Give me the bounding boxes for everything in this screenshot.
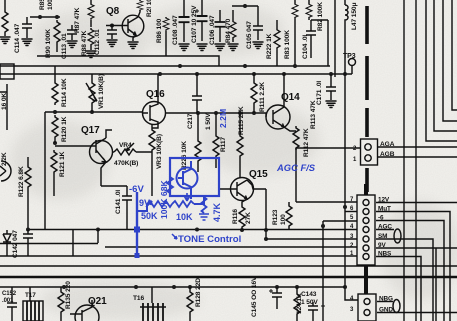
blue resistor in box bbox=[167, 176, 173, 194]
transistor Q14 bbox=[266, 74, 296, 131]
svg-text:100K 68K: 100K 68K bbox=[159, 180, 169, 219]
svg-text:C114 .047: C114 .047 bbox=[14, 23, 21, 53]
blue box bbox=[170, 158, 219, 196]
wire -6 row right bbox=[376, 221, 444, 321]
resistor R114 bbox=[52, 66, 58, 105]
svg-text:R122 6.8K: R122 6.8K bbox=[18, 166, 25, 197]
svg-text:R128 22D: R128 22D bbox=[195, 278, 202, 307]
pot VR3 bbox=[149, 124, 155, 196]
svg-text:27K: 27K bbox=[245, 212, 252, 224]
pot VR1 bbox=[86, 74, 97, 112]
node rail junctions bbox=[158, 64, 347, 76]
capacitor C105 bbox=[253, 6, 263, 40]
wire main vertical x345 bbox=[345, 66, 358, 300]
connector J1 AGA/AGB bbox=[361, 139, 378, 165]
wire top rail B bbox=[0, 73, 352, 75]
svg-text:AGB: AGB bbox=[380, 151, 395, 158]
wire MuT stub left bbox=[345, 211, 357, 213]
svg-text:Q17: Q17 bbox=[81, 125, 100, 136]
transformer T16 bbox=[140, 287, 166, 321]
wire mid gate rail bbox=[45, 111, 143, 113]
wire MuT row right bbox=[376, 212, 450, 321]
resistor R111 bbox=[251, 74, 257, 113]
blue transistor bbox=[177, 161, 198, 199]
svg-text:100: 100 bbox=[280, 214, 287, 225]
capacitor C143 bbox=[308, 302, 325, 321]
svg-text:C106 .047: C106 .047 bbox=[209, 15, 216, 45]
wire -6 drop x323 bbox=[322, 221, 324, 321]
svg-text:2.2M: 2.2M bbox=[218, 109, 228, 128]
wire top box right edge bbox=[311, 20, 328, 66]
svg-text:R112 47K: R112 47K bbox=[303, 128, 310, 157]
svg-text:C145 OO 16V: C145 OO 16V bbox=[251, 276, 258, 317]
resistor R116 bbox=[239, 205, 245, 230]
svg-text:AGA: AGA bbox=[380, 141, 395, 148]
wire top box bottom edge bbox=[37, 56, 219, 66]
wire C105 top feed bbox=[232, 5, 258, 7]
svg-text:Q21: Q21 bbox=[88, 296, 107, 307]
wire mid signal rail bbox=[166, 113, 266, 117]
svg-text:16 0K: 16 0K bbox=[1, 93, 8, 110]
resistor top-left edge bbox=[2, 0, 8, 36]
svg-text:TP3: TP3 bbox=[343, 53, 356, 60]
bottom section top rail bbox=[0, 286, 345, 288]
svg-text:12V: 12V bbox=[378, 197, 390, 204]
wire left edge stub bbox=[0, 84, 7, 130]
wire 12V row right bbox=[376, 202, 457, 204]
bus row 9V bbox=[105, 246, 357, 248]
wire right vertical bus 2 bbox=[415, 0, 417, 321]
capacitor C152 bbox=[7, 287, 17, 321]
capacitor C142 bbox=[23, 230, 33, 256]
svg-text:C217: C217 bbox=[187, 113, 194, 129]
svg-text:VR1 10K(B): VR1 10K(B) bbox=[98, 74, 105, 109]
svg-text:R222 1K: R222 1K bbox=[266, 33, 273, 59]
wire AGA row bbox=[377, 146, 457, 148]
transistor left-edge clipped bbox=[0, 161, 11, 181]
svg-text:T16: T16 bbox=[133, 295, 144, 302]
svg-text:SM: SM bbox=[378, 233, 387, 240]
svg-text:1 50V: 1 50V bbox=[205, 113, 212, 130]
resistor R83 bbox=[292, 0, 298, 66]
capacitor C104 bbox=[306, 20, 316, 58]
bus row NBS bbox=[73, 255, 357, 257]
svg-text:C105 047: C105 047 bbox=[246, 21, 253, 49]
svg-text:R82 100K: R82 100K bbox=[317, 2, 324, 31]
svg-text:R88 47K: R88 47K bbox=[81, 30, 88, 56]
blue pot 10K bbox=[172, 201, 194, 207]
resistor R82 bbox=[306, 0, 312, 20]
svg-text:R114 10K: R114 10K bbox=[61, 78, 68, 107]
svg-text:C107 10 25V: C107 10 25V bbox=[191, 5, 198, 43]
transistor Q8 bbox=[106, 10, 144, 41]
svg-text:C143: C143 bbox=[301, 291, 317, 298]
wire top-left rail bbox=[30, 16, 60, 18]
svg-text:C152: C152 bbox=[2, 291, 17, 297]
svg-text:R135 220: R135 220 bbox=[65, 281, 72, 309]
capacitor C145 bbox=[269, 287, 282, 309]
svg-text:R116: R116 bbox=[232, 209, 239, 224]
bus row AGC bbox=[28, 229, 357, 231]
svg-text:R121 1K: R121 1K bbox=[59, 151, 66, 177]
transistor Q15 bbox=[219, 178, 266, 206]
shield bar dashed bbox=[365, 6, 369, 192]
bus row -6 bbox=[323, 220, 357, 222]
separator line 2 bbox=[0, 276, 457, 278]
svg-text:R84 470: R84 470 bbox=[225, 18, 232, 43]
capacitor C171 bbox=[326, 74, 336, 100]
capacitor C141 bbox=[122, 186, 132, 230]
svg-text:R117: R117 bbox=[220, 137, 227, 152]
svg-text:Q15: Q15 bbox=[249, 169, 268, 180]
wire small box top-left bbox=[0, 64, 14, 79]
svg-text:50K: 50K bbox=[141, 211, 158, 221]
svg-text:R83 100K: R83 100K bbox=[284, 30, 291, 59]
svg-text:C142 047: C142 047 bbox=[12, 230, 19, 258]
svg-text:-6: -6 bbox=[378, 215, 384, 222]
svg-text:R111 2.2K: R111 2.2K bbox=[259, 82, 266, 112]
svg-text:NBS: NBS bbox=[378, 251, 392, 258]
svg-text:Q8: Q8 bbox=[106, 6, 120, 17]
svg-text:C171 .0l: C171 .0l bbox=[316, 81, 323, 105]
svg-text:R2l 10K: R2l 10K bbox=[146, 0, 153, 17]
svg-text:4.7K: 4.7K bbox=[212, 202, 222, 222]
wire corner bundle top-right bbox=[426, 0, 457, 141]
svg-text:10K: 10K bbox=[176, 212, 193, 222]
capacitor C217 bbox=[192, 74, 202, 113]
resistor R128 bbox=[187, 287, 193, 321]
wire mid box left edge bbox=[44, 112, 46, 230]
resistor R86 bbox=[163, 17, 169, 56]
capacitor C106 bbox=[215, 10, 226, 42]
test point TP3 bbox=[349, 59, 356, 66]
wire NBS row right bbox=[376, 257, 421, 321]
capacitor C112b bbox=[107, 25, 117, 39]
blue pot 50K bbox=[137, 204, 147, 211]
svg-text:C108 .047: C108 .047 bbox=[172, 15, 179, 45]
svg-text:R123: R123 bbox=[272, 209, 279, 225]
wire top rail A bbox=[0, 65, 330, 67]
wire SM row right bbox=[376, 239, 433, 321]
svg-text:Q16: Q16 bbox=[146, 89, 165, 100]
wire 12V feed bbox=[296, 201, 357, 203]
svg-text:2.2K: 2.2K bbox=[1, 152, 8, 166]
svg-text:GND: GND bbox=[379, 307, 393, 314]
resistor R84 bbox=[230, 10, 236, 42]
diode X142 bbox=[3, 230, 11, 256]
resistor R112 bbox=[293, 126, 299, 202]
svg-text:T17: T17 bbox=[25, 292, 36, 299]
wire left row 243 bbox=[0, 243, 98, 245]
svg-text:MuT: MuT bbox=[378, 206, 391, 213]
resistor R122 bbox=[25, 157, 31, 228]
resistor R121 bbox=[51, 150, 57, 196]
svg-text:.001: .001 bbox=[2, 298, 14, 304]
svg-text:VR4: VR4 bbox=[119, 142, 132, 149]
wire Q17 emitter to C141 bbox=[101, 185, 127, 187]
wire left riser x73 bbox=[72, 229, 74, 256]
wire left riser x98 bbox=[97, 229, 99, 243]
connector J2 7pin bbox=[357, 184, 375, 294]
blue wire main vertical bbox=[136, 192, 138, 256]
capacitor C108 bbox=[179, 0, 190, 42]
capacitor C114 bbox=[22, 17, 32, 38]
svg-text:9V: 9V bbox=[378, 242, 386, 249]
transformer T17 bbox=[23, 287, 43, 321]
svg-text:1 50V: 1 50V bbox=[301, 299, 318, 306]
resistor R123 bbox=[286, 202, 292, 230]
resistor R135 bbox=[58, 287, 64, 321]
svg-text:100K: 100K bbox=[47, 0, 54, 10]
separator line 1 bbox=[0, 265, 457, 267]
svg-text:R226 10K: R226 10K bbox=[181, 141, 188, 170]
svg-text:R86 100: R86 100 bbox=[156, 18, 163, 43]
resistor R115 bbox=[237, 113, 243, 178]
bus row SM bbox=[266, 238, 357, 240]
wire Q15 collector drop bbox=[265, 189, 267, 239]
resistor R124 bbox=[294, 287, 300, 321]
svg-text:R85: R85 bbox=[39, 0, 46, 10]
inductor L47 bbox=[345, 0, 348, 66]
svg-text:C112 .01: C112 .01 bbox=[94, 29, 101, 55]
svg-text:VR3 10K(B): VR3 10K(B) bbox=[156, 134, 163, 169]
transistor Q21 bbox=[70, 300, 99, 321]
svg-text:R87 47K: R87 47K bbox=[74, 7, 81, 33]
svg-text:L47 150μ: L47 150μ bbox=[351, 3, 358, 30]
wire right vertical bus 1 bbox=[403, 0, 405, 321]
capacitor C107 bbox=[195, 0, 208, 41]
wire vertical bus x436 bbox=[435, 248, 437, 321]
transistor Q16 bbox=[143, 74, 166, 128]
svg-text:C104 .0l: C104 .0l bbox=[302, 35, 309, 59]
svg-text:C113 .01: C113 .01 bbox=[61, 33, 68, 59]
wire R112 to connector AGA bbox=[296, 147, 361, 149]
resistor R222 bbox=[274, 20, 280, 66]
svg-text:R90 100K: R90 100K bbox=[45, 29, 52, 58]
wire bottom of diode pair bbox=[0, 255, 73, 257]
ground C171 bbox=[326, 101, 336, 108]
svg-text:NBG: NBG bbox=[379, 296, 393, 303]
wire AGB row bbox=[377, 156, 457, 158]
svg-text:C141 .0l: C141 .0l bbox=[115, 190, 122, 214]
blue resistor 4.7K bbox=[194, 197, 204, 204]
resistor R88 bbox=[88, 28, 94, 50]
capacitor C113 bbox=[67, 25, 77, 40]
resistor R226 bbox=[195, 113, 201, 172]
resistor R87 bbox=[88, 0, 94, 27]
resistor R120 bbox=[52, 115, 58, 143]
svg-text:TONE Control: TONE Control bbox=[178, 234, 241, 245]
transistor Q17 bbox=[55, 130, 113, 186]
wire GND row right bbox=[377, 312, 457, 314]
resistor R2l bbox=[137, 0, 143, 11]
wire NBG stub + lamp bbox=[377, 301, 393, 303]
svg-text:R120 1K: R120 1K bbox=[61, 116, 68, 142]
wire left vertical x335 bbox=[334, 0, 336, 77]
resistor R90 bbox=[54, 20, 60, 52]
svg-text:AGC: AGC bbox=[378, 224, 392, 231]
svg-text:AGC F/S: AGC F/S bbox=[276, 162, 316, 173]
wire AGC row right + lamp bbox=[376, 229, 394, 231]
svg-text:Q14: Q14 bbox=[281, 92, 300, 103]
wire 9V row right bbox=[376, 247, 457, 249]
node mid rail junctions bbox=[53, 110, 94, 145]
pot VR4 bbox=[112, 143, 152, 155]
resistor R117 bbox=[213, 113, 219, 168]
connector J3 NBG/GND bbox=[358, 294, 376, 321]
svg-text:470K(B): 470K(B) bbox=[114, 160, 138, 167]
svg-text:R115 22K: R115 22K bbox=[238, 106, 245, 135]
